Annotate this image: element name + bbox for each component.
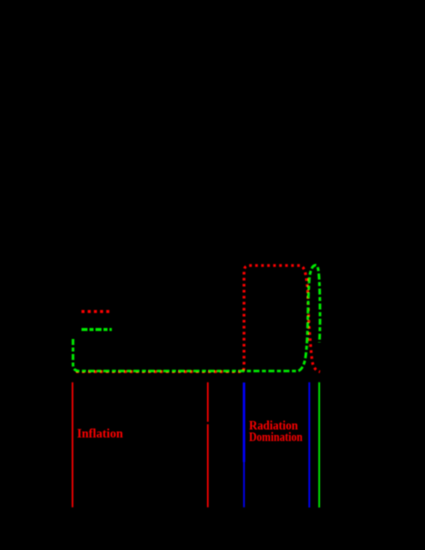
red vertical line (end of inflation, upper segment) [207, 382, 209, 422]
green vertical line [318, 382, 320, 507]
blue vertical line (left, thick segment) [243, 383, 245, 463]
legend red dotted sample [82, 310, 111, 313]
red vertical line (end of inflation, lower segment) [207, 424, 209, 507]
blue vertical line (right) [308, 382, 310, 507]
red dotted curve (radiation energy density) [76, 266, 320, 372]
blue vertical line (left, thin lower segment) [243, 462, 245, 507]
red vertical line (start of inflation) [72, 382, 74, 507]
legend green dashed sample [82, 328, 112, 331]
svg-text:Domination: Domination [249, 429, 303, 444]
green dashed curve (field energy density) [73, 265, 320, 371]
svg-text:Inflation: Inflation [77, 425, 124, 440]
